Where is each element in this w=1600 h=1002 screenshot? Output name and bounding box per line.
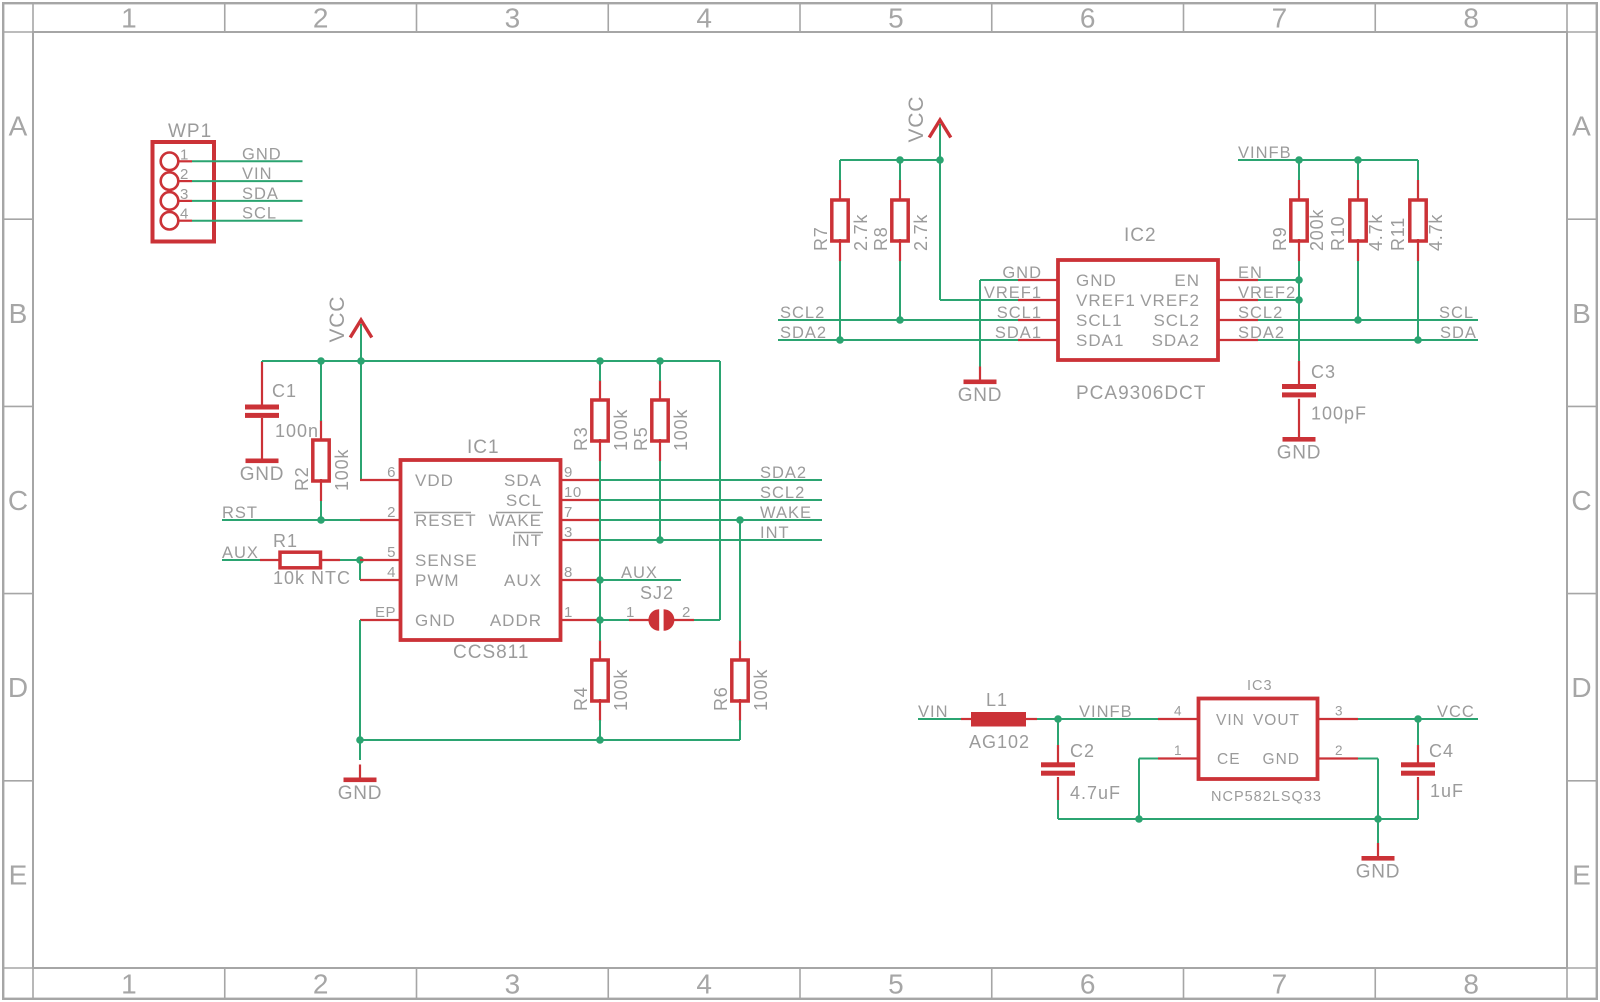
svg-text:4: 4: [696, 969, 712, 1000]
wire VOUT to VCC: [1358, 718, 1478, 720]
pin (right y=280) of IC2: [1218, 279, 1258, 281]
svg-text:AUX: AUX: [504, 571, 542, 590]
svg-text:2: 2: [313, 969, 329, 1000]
svg-text:SDA1: SDA1: [1076, 331, 1124, 350]
svg-text:C: C: [8, 485, 28, 516]
net label VIN: [242, 165, 273, 183]
wire C2 to gnd rail: [1058, 800, 1139, 819]
wire net AUX (pin8): [600, 579, 681, 581]
svg-text:100n: 100n: [275, 421, 319, 441]
capacitor C4: [1401, 741, 1464, 801]
svg-text:E: E: [1572, 859, 1591, 890]
wire net SCL2 to SCL: [1258, 319, 1478, 321]
pin 5 of IC1: [360, 544, 400, 561]
svg-text:100k: 100k: [611, 409, 631, 451]
net label SCL: [242, 205, 277, 223]
svg-text:100pF: 100pF: [1311, 404, 1367, 424]
wire VCC to R3: [599, 361, 601, 381]
pin 2 pad of WP1: [161, 166, 192, 190]
ground under IC1: [338, 765, 383, 805]
svg-text:R3: R3: [571, 426, 591, 451]
svg-text:4: 4: [387, 564, 396, 581]
wire R7 down to SDA1: [839, 261, 841, 340]
junction R10-SCL2: [1354, 316, 1362, 324]
resistor R8 2.7k: [871, 180, 931, 261]
junction R8-SCL1: [896, 316, 904, 324]
vcc symbol VCC (left): [326, 296, 372, 361]
junction R5-INT: [656, 536, 664, 544]
junction gnd rail x1378: [1374, 815, 1382, 823]
junction ADDR node: [596, 616, 604, 624]
svg-text:SCL2: SCL2: [760, 484, 805, 502]
svg-text:SDA2: SDA2: [780, 324, 827, 342]
svg-text:200k: 200k: [1307, 209, 1327, 251]
svg-text:8: 8: [564, 564, 573, 581]
svg-text:SDA1: SDA1: [995, 324, 1042, 342]
svg-text:SCL1: SCL1: [997, 304, 1042, 322]
wire net VIN from WP1 pin 2: [192, 180, 303, 182]
wire VCC to R5: [659, 361, 661, 381]
wire VCC down to C4: [1417, 719, 1419, 746]
svg-text:4.7uF: 4.7uF: [1070, 783, 1121, 803]
svg-text:D: D: [1571, 672, 1591, 703]
pin 7 of IC1: [560, 504, 600, 521]
svg-text:2: 2: [1335, 743, 1343, 758]
wire pin2 to gnd rail: [1358, 759, 1378, 820]
junction bottom rail x600: [596, 736, 604, 744]
vcc symbol VCC (right): [905, 96, 951, 161]
pin (right y=300) of IC2: [1218, 299, 1258, 301]
svg-text:SENSE: SENSE: [415, 551, 478, 570]
svg-text:SCL: SCL: [506, 491, 542, 510]
pin 4 pad of WP1: [161, 206, 192, 230]
svg-text:VIN: VIN: [242, 165, 273, 183]
resistor R2 100k: [292, 420, 352, 501]
wire VCC to C1: [261, 361, 263, 364]
svg-text:2.7k: 2.7k: [851, 214, 871, 251]
svg-text:R2: R2: [292, 466, 312, 491]
svg-text:WP1: WP1: [168, 121, 212, 142]
wire net GND from WP1 pin 1: [192, 160, 303, 162]
net label VINFB: [1079, 703, 1133, 721]
svg-text:1: 1: [626, 604, 635, 621]
svg-text:IC1: IC1: [467, 437, 500, 458]
svg-text:VREF1: VREF1: [984, 284, 1042, 302]
op-amp U1 / ic IC1 CCS811 body: [401, 437, 561, 663]
wire R2 to RST: [320, 501, 322, 520]
pin 3 of IC3: [1318, 704, 1358, 720]
junction VCC rail x320: [317, 357, 325, 365]
svg-text:R9: R9: [1270, 226, 1290, 251]
resistor R10 4.7k: [1328, 180, 1386, 261]
ground under C1: [240, 459, 285, 486]
svg-text:GND: GND: [240, 464, 285, 485]
svg-text:AUX: AUX: [621, 564, 658, 582]
svg-text:8: 8: [1463, 969, 1479, 1000]
pin 3 of IC1: [560, 524, 600, 541]
svg-text:8: 8: [1463, 3, 1479, 34]
pin 1 of IC1: [560, 604, 600, 621]
pin 1 pad of WP1: [161, 146, 192, 170]
wire GND bottom rail: [360, 739, 740, 741]
ic IC2 PCA9306DCT body: [1058, 225, 1218, 404]
net label VCC: [1437, 703, 1475, 721]
svg-text:5: 5: [387, 544, 396, 561]
svg-text:C2: C2: [1070, 741, 1095, 761]
junction VCC rail x900: [896, 156, 904, 164]
svg-text:1uF: 1uF: [1430, 781, 1464, 801]
wire gnd rail to C4: [1378, 800, 1418, 819]
wire AUX to R1: [222, 559, 261, 561]
junction gnd rail x1139: [1135, 815, 1143, 823]
wire net VINFB to IC3: [1058, 718, 1158, 720]
wire VCC rail corner down to SJ2 pad2: [694, 361, 720, 620]
net label VINFB (top): [1238, 144, 1292, 162]
wire net SDA2 to SDA: [1258, 339, 1478, 341]
wire VCC corner to R7: [839, 160, 841, 181]
svg-text:R1: R1: [273, 531, 298, 551]
svg-text:VOUT: VOUT: [1253, 712, 1300, 729]
wire ADDR to SJ2: [600, 619, 629, 621]
junction VINFB x1299: [1295, 156, 1303, 164]
svg-text:4.7k: 4.7k: [1366, 214, 1386, 251]
pin 4 of IC1: [360, 564, 400, 581]
svg-text:3: 3: [564, 524, 573, 541]
junction VREF2: [1295, 296, 1303, 304]
svg-text:L1: L1: [986, 690, 1008, 710]
wire GND drop (IC2): [979, 280, 981, 368]
pin EP of IC1: [360, 604, 400, 621]
net label WAKE: [760, 504, 812, 522]
svg-text:C3: C3: [1311, 362, 1336, 382]
svg-text:7: 7: [1272, 969, 1288, 1000]
svg-text:100k: 100k: [332, 449, 352, 491]
wire R11 down to SDA2: [1417, 261, 1419, 340]
pin (right y=340) of IC2: [1218, 339, 1258, 341]
svg-text:GND: GND: [1002, 264, 1042, 282]
svg-text:EN: EN: [1174, 271, 1200, 290]
pin 10 of IC1: [560, 484, 600, 501]
svg-text:WAKE: WAKE: [760, 504, 812, 522]
net label SDA: [1440, 324, 1477, 342]
svg-text:INT: INT: [760, 524, 790, 542]
wire net SDA2 (IC1): [600, 479, 822, 481]
svg-text:PWM: PWM: [415, 571, 460, 590]
wire gnd rail to ground: [1377, 819, 1379, 844]
net label SCL: [1439, 304, 1474, 322]
svg-text:A: A: [9, 111, 28, 142]
pin 3 pad of WP1: [161, 186, 192, 210]
svg-text:C1: C1: [272, 381, 297, 401]
junction RST at R2: [317, 516, 325, 524]
svg-text:2: 2: [387, 504, 396, 521]
pin (left y=300) of IC2: [1018, 299, 1058, 301]
svg-text:GND: GND: [1356, 862, 1401, 883]
svg-text:GND: GND: [242, 145, 282, 163]
svg-text:R7: R7: [811, 226, 831, 251]
wire net SDA from WP1 pin 3: [192, 200, 303, 202]
junction EN-R9: [1295, 276, 1303, 284]
svg-text:9: 9: [564, 464, 573, 481]
net label VREF1: [984, 284, 1042, 302]
net label VREF2: [1238, 284, 1296, 302]
junction VCC rail x361: [357, 357, 365, 365]
net label SCL2: [760, 484, 805, 502]
junction AUX at pin8: [596, 576, 604, 584]
wire VINFB to R10: [1357, 160, 1359, 181]
pin (right y=320) of IC2: [1218, 319, 1258, 321]
svg-text:1: 1: [121, 969, 137, 1000]
svg-text:PCA9306DCT: PCA9306DCT: [1076, 383, 1206, 404]
wire VCC to R8: [899, 160, 901, 181]
net label GND (IC2): [1002, 264, 1042, 282]
resistor R9 200k: [1270, 180, 1327, 261]
svg-text:WAKE: WAKE: [489, 511, 542, 530]
svg-text:SCL2: SCL2: [1153, 311, 1200, 330]
svg-text:SCL2: SCL2: [780, 304, 825, 322]
inductor L1 AG102: [961, 690, 1037, 752]
svg-text:5: 5: [888, 3, 904, 34]
svg-text:VCC: VCC: [1437, 703, 1475, 721]
junction VINFB x1358: [1354, 156, 1362, 164]
pin 9 of IC1: [560, 464, 600, 481]
svg-text:10k NTC: 10k NTC: [273, 568, 351, 588]
pin 2 of IC3: [1318, 743, 1358, 759]
pin (left y=320) of IC2: [1018, 319, 1058, 321]
svg-text:SDA2: SDA2: [760, 464, 807, 482]
svg-text:IC2: IC2: [1124, 225, 1157, 246]
svg-text:SDA: SDA: [242, 185, 279, 203]
svg-text:A: A: [1572, 111, 1591, 142]
wire VCC down to VREF1: [940, 160, 1018, 300]
svg-text:6: 6: [387, 464, 396, 481]
svg-text:2.7k: 2.7k: [911, 214, 931, 251]
svg-text:R6: R6: [711, 686, 731, 711]
capacitor C2: [1041, 741, 1121, 803]
svg-text:SCL: SCL: [242, 205, 277, 223]
resistor R4 100k: [571, 640, 631, 721]
wire SENSE node to PWM pin: [359, 560, 361, 580]
wire ADDR down to R4: [599, 620, 601, 641]
ground under IC2: [958, 367, 1003, 407]
wire R4 to bottom rail: [599, 720, 601, 740]
svg-text:B: B: [9, 298, 28, 329]
wire net SCL from WP1 pin 4: [192, 220, 303, 222]
svg-text:7: 7: [564, 504, 573, 521]
pin 4 of IC3: [1158, 704, 1198, 720]
capacitor C3: [1282, 361, 1367, 437]
net label SCL1: [997, 304, 1042, 322]
svg-text:3: 3: [505, 969, 521, 1000]
wire net VIN: [918, 718, 962, 720]
svg-text:2: 2: [682, 604, 691, 621]
svg-text:SDA: SDA: [1440, 324, 1477, 342]
junction SENSE node: [356, 556, 364, 564]
pin 8 of IC1: [560, 564, 600, 581]
connector WP1: [153, 121, 215, 242]
svg-text:R11: R11: [1388, 217, 1408, 251]
wire rail to ground: [359, 740, 361, 760]
pin 1 of IC3: [1158, 743, 1198, 759]
net label SCL2 (right): [1238, 304, 1283, 322]
svg-text:VREF1: VREF1: [1076, 291, 1136, 310]
wire R8 down to SCL1: [899, 261, 901, 320]
svg-text:GND: GND: [1277, 443, 1322, 464]
svg-text:4: 4: [180, 206, 189, 223]
svg-text:GND: GND: [415, 611, 456, 630]
wire net SCL2 (IC1): [600, 499, 822, 501]
svg-text:100k: 100k: [671, 409, 691, 451]
net label SDA2: [760, 464, 807, 482]
svg-text:D: D: [8, 672, 28, 703]
svg-text:CE: CE: [1217, 751, 1241, 768]
wire EP drop: [359, 620, 361, 740]
svg-text:2: 2: [180, 166, 189, 183]
wire AUX down to ADDR: [599, 580, 601, 620]
wire VCC rail (IC2): [840, 159, 940, 161]
wire net VINFB rail: [1238, 159, 1418, 161]
svg-text:RESET: RESET: [415, 511, 477, 530]
svg-text:7: 7: [1272, 3, 1288, 34]
pin (left y=280) of IC2: [1018, 279, 1058, 281]
wire VINFB corner to R11: [1417, 160, 1419, 181]
ground under C3: [1277, 437, 1322, 464]
svg-text:1: 1: [1174, 743, 1182, 758]
junction bottom rail x360: [356, 736, 364, 744]
junction VCC rail x940: [936, 156, 944, 164]
svg-text:4.7k: 4.7k: [1426, 214, 1446, 251]
net label SDA: [242, 185, 279, 203]
wire gnd rail middle: [1139, 818, 1378, 820]
junction R11-SDA2: [1414, 336, 1422, 344]
svg-text:SDA: SDA: [504, 471, 542, 490]
svg-text:VCC: VCC: [326, 296, 349, 343]
junction VCC rail x600: [596, 357, 604, 365]
svg-text:AG102: AG102: [969, 732, 1030, 752]
wire net VREF2: [1258, 299, 1299, 301]
svg-text:CCS811: CCS811: [453, 642, 529, 663]
wire net SDA2 (left of IC2): [778, 339, 1018, 341]
wire net SCL2 (left of IC2): [778, 319, 1018, 321]
svg-text:RST: RST: [222, 504, 258, 522]
svg-text:10: 10: [564, 484, 582, 501]
svg-text:IC3: IC3: [1247, 678, 1273, 694]
wire L1 to VINFB node: [1037, 718, 1058, 720]
net label SDA2 (left of IC2): [780, 324, 827, 342]
wire R9 down to EN/VREF2/C3: [1298, 261, 1300, 362]
wire R10 down to SCL2: [1357, 261, 1359, 320]
net label AUX (left): [222, 544, 259, 562]
junction VCC rail x660: [656, 357, 664, 365]
wire R3 down to AUX node: [599, 461, 601, 580]
svg-text:SCL1: SCL1: [1076, 311, 1123, 330]
wire net WAKE: [600, 519, 822, 521]
svg-text:1: 1: [121, 3, 137, 34]
wire VINFB down to C2: [1057, 719, 1059, 746]
svg-text:SCL: SCL: [1439, 304, 1474, 322]
net label VIN: [918, 703, 949, 721]
svg-text:R8: R8: [871, 226, 891, 251]
svg-text:GND: GND: [958, 385, 1003, 406]
svg-text:6: 6: [1080, 969, 1096, 1000]
wire net EN: [1258, 279, 1299, 281]
svg-text:SJ2: SJ2: [640, 583, 674, 603]
svg-text:INT: INT: [512, 531, 542, 550]
svg-text:E: E: [9, 859, 28, 890]
net label EN: [1238, 264, 1263, 282]
wire R6 to bottom rail: [739, 720, 741, 740]
wire R1 to SENSE junction: [340, 559, 360, 561]
svg-text:VDD: VDD: [415, 471, 454, 490]
svg-text:3: 3: [180, 186, 189, 203]
svg-text:VREF2: VREF2: [1140, 291, 1200, 310]
svg-text:R10: R10: [1328, 216, 1348, 251]
resistor R11 4.7k: [1388, 180, 1446, 261]
svg-text:GND: GND: [1076, 271, 1117, 290]
svg-text:R4: R4: [571, 686, 591, 711]
svg-text:2: 2: [313, 3, 329, 34]
wire VINFB to R9: [1298, 160, 1300, 181]
ground under IC3: [1356, 843, 1401, 883]
svg-text:B: B: [1572, 298, 1591, 329]
net label SDA1: [995, 324, 1042, 342]
junction R6-WAKE: [736, 516, 744, 524]
net label INT: [760, 524, 790, 542]
solder jumper SJ2: [626, 583, 694, 631]
junction R7-SDA1: [836, 336, 844, 344]
svg-text:R5: R5: [631, 426, 651, 451]
svg-text:NCP582LSQ33: NCP582LSQ33: [1211, 789, 1322, 805]
svg-text:100k: 100k: [751, 669, 771, 711]
svg-text:VINFB: VINFB: [1079, 703, 1133, 721]
svg-text:4: 4: [696, 3, 712, 34]
junction VINFB node: [1054, 715, 1062, 723]
svg-text:4: 4: [1174, 704, 1182, 719]
svg-text:VIN: VIN: [1216, 712, 1245, 729]
net label GND: [242, 145, 282, 163]
svg-text:100k: 100k: [611, 669, 631, 711]
svg-text:6: 6: [1080, 3, 1096, 34]
pin 2 of IC1: [360, 504, 400, 521]
svg-text:GND: GND: [338, 783, 383, 804]
svg-text:VCC: VCC: [905, 96, 928, 143]
svg-text:C: C: [1571, 485, 1591, 516]
svg-text:GND: GND: [1263, 751, 1300, 768]
wire net RST: [222, 519, 360, 521]
wire VCC drop to VDD: [360, 361, 362, 480]
wire net INT: [600, 539, 822, 541]
wire VCC to R2: [320, 361, 322, 421]
svg-text:EP: EP: [375, 604, 396, 621]
pin (left y=340) of IC2: [1018, 339, 1058, 341]
net label SDA2 (right): [1238, 324, 1285, 342]
svg-text:ADDR: ADDR: [490, 611, 542, 630]
net label RST: [222, 504, 258, 522]
svg-text:SDA2: SDA2: [1152, 331, 1200, 350]
pin 6 of IC1: [360, 464, 400, 481]
ic IC3 NCP582LSQ33 body: [1199, 678, 1322, 805]
resistor R3 100k: [571, 380, 631, 461]
net label AUX (pin8): [621, 564, 658, 582]
net label SCL2 (left of IC2): [780, 304, 825, 322]
resistor R5 100k: [631, 380, 691, 461]
resistor R6 100k: [711, 640, 771, 721]
wire CE to gnd rail: [1139, 759, 1158, 820]
svg-text:1: 1: [564, 604, 573, 621]
svg-text:3: 3: [505, 3, 521, 34]
resistor R7 2.7k: [811, 180, 871, 261]
wire GND pin of IC2: [980, 279, 1018, 281]
